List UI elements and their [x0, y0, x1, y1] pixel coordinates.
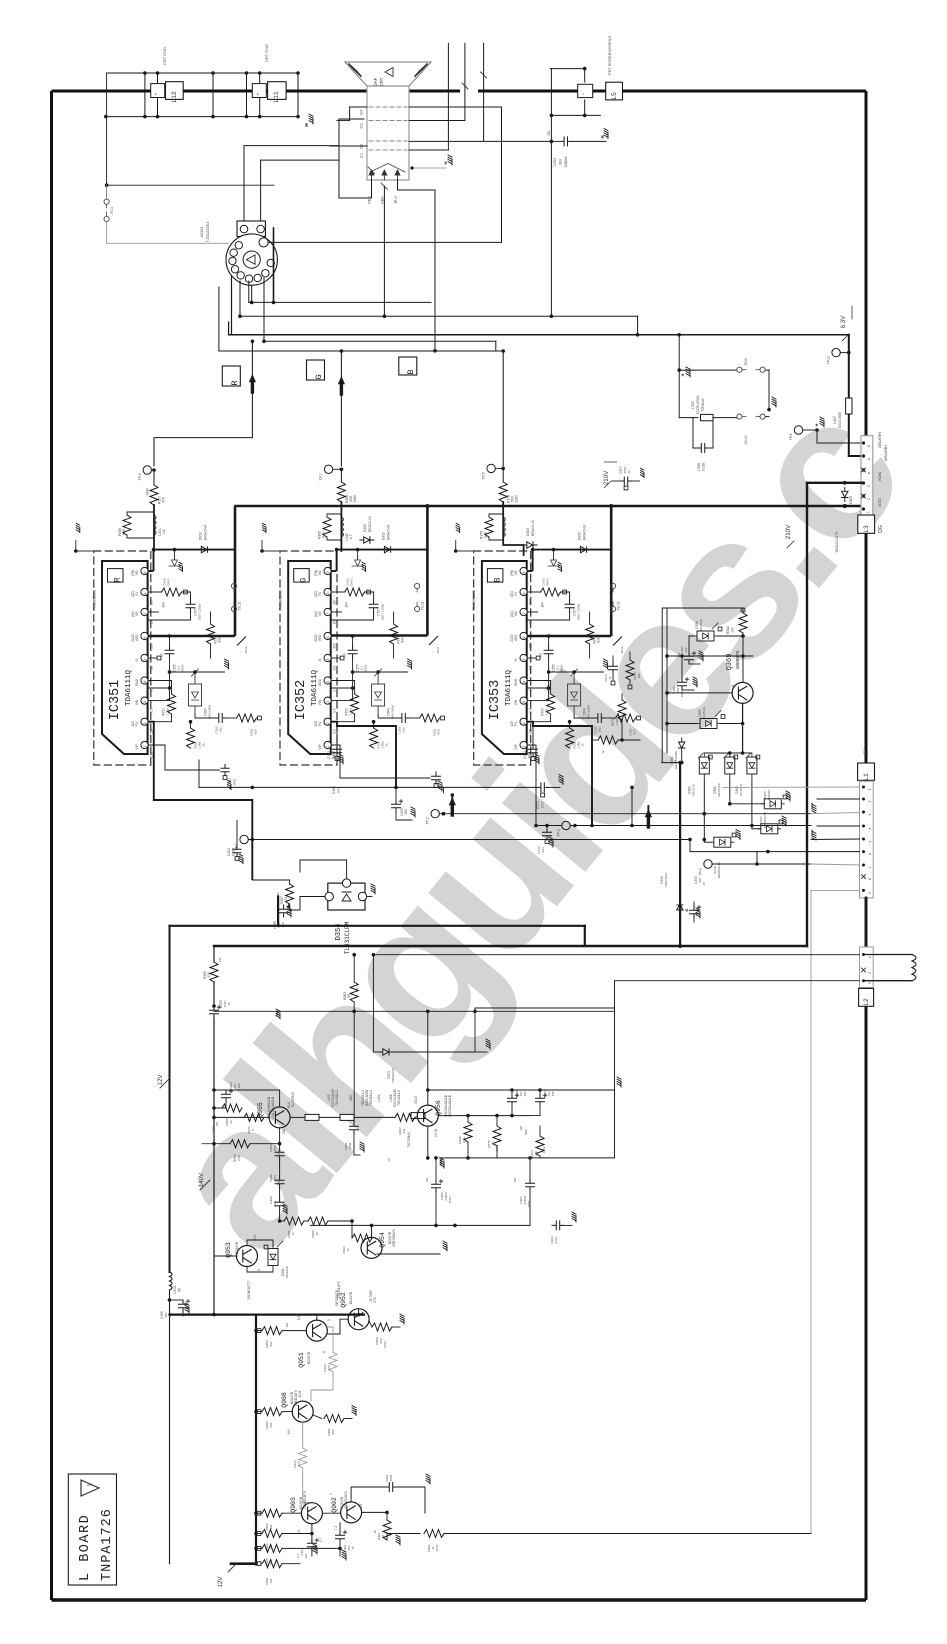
- svg-text:2.8: 2.8: [529, 729, 533, 734]
- outer border frame: [52, 90, 368, 93]
- svg-text:560: 560: [331, 1429, 335, 1434]
- wire L1 pin1 gray: [723, 786, 860, 788]
- svg-text:TDA6111Q: TDA6111Q: [505, 670, 513, 707]
- connector L1: [858, 763, 875, 780]
- pin 5 IC353: [520, 654, 527, 661]
- svg-text:920: 920: [254, 729, 258, 734]
- wire cluster left vertical: [666, 608, 668, 753]
- svg-text:RI: RI: [135, 592, 139, 595]
- wire L1 pin9 gray drop: [811, 890, 860, 1533]
- resistor R901 1k: [387, 1534, 420, 1541]
- connector L1 pin 1: [862, 786, 865, 789]
- svg-text:167: 167: [150, 599, 154, 605]
- capacitor C355 0.1 250V on pin6: [169, 636, 171, 646]
- svg-text:2SB321ATX: 2SB321ATX: [337, 1280, 341, 1298]
- svg-text:0.022: 0.022: [332, 751, 336, 759]
- pin 4 IC351: [141, 677, 148, 684]
- svg-text:VIP: VIP: [135, 744, 139, 749]
- svg-text:250V: 250V: [364, 664, 368, 671]
- connector L1 pin 5: [862, 838, 865, 841]
- svg-text:270: 270: [327, 1365, 331, 1370]
- ferrite bead small box L5: [578, 84, 593, 97]
- capacitor C955 100V 0.01: [275, 1148, 284, 1160]
- svg-text:1: 1: [326, 745, 330, 747]
- svg-text:H: H: [600, 135, 605, 138]
- svg-text:RI: RI: [318, 592, 322, 595]
- left parts near Q955: [212, 1088, 216, 1092]
- svg-text:GD: GD: [547, 130, 551, 136]
- svg-text:470: 470: [162, 497, 166, 503]
- transistor Q952: [348, 1309, 369, 1330]
- svg-text:6: 6: [322, 1351, 326, 1353]
- svg-text:JSL11: JSL11: [238, 601, 242, 610]
- wire row y787: [199, 786, 536, 788]
- resistor R970 0: [244, 1113, 264, 1121]
- wire thick x680 down: [679, 763, 681, 946]
- svg-text:TEK1011-2: TEK1011-2: [369, 1090, 373, 1106]
- svg-text:S20Y 1200p: S20Y 1200p: [198, 603, 202, 620]
- svg-text:140V: 140V: [199, 1173, 205, 1187]
- svg-text:TSK1011-2: TSK1011-2: [397, 1090, 401, 1106]
- capacitor D374 7e: [609, 662, 618, 674]
- svg-text:R382: R382: [726, 626, 730, 634]
- resistor R357 470: [150, 485, 158, 505]
- wire R drop: [251, 341, 253, 437]
- capacitor C352 0.01: [148, 745, 220, 770]
- capacitor C361 0.01 IC352 pin1: [331, 745, 430, 778]
- svg-text:6.6: 6.6: [287, 1430, 291, 1435]
- svg-text:450V: 450V: [448, 1197, 452, 1204]
- svg-text:10: 10: [315, 1232, 319, 1236]
- flare hatch marks: [349, 64, 354, 70]
- svg-text:33k: 33k: [269, 1578, 273, 1583]
- wire 210V riser IC351: [234, 506, 237, 636]
- svg-text:CRT GND: CRT GND: [264, 44, 269, 62]
- svg-text:210V: 210V: [314, 633, 318, 641]
- svg-text:0: 0: [150, 689, 154, 691]
- diode box D353 MA3510L: [697, 719, 720, 729]
- capacitor C391: [550, 140, 554, 144]
- svg-text:MA3510L: MA3510L: [702, 706, 706, 719]
- wire socket left down: [218, 287, 220, 351]
- wire Q369 base: [667, 692, 732, 694]
- wire thick rail y925: [170, 925, 279, 927]
- svg-text:IS: IS: [514, 658, 518, 661]
- svg-text:L954: L954: [377, 1094, 381, 1101]
- svg-text:210V: 210V: [878, 498, 883, 508]
- transistor Q908: [292, 1401, 313, 1422]
- op-amp IC353 TDA6111Q (video output IC): [474, 551, 531, 765]
- jumper JSL11: [611, 583, 616, 588]
- svg-text:3: 3: [326, 701, 330, 703]
- wire Q369 emitter down: [742, 703, 744, 753]
- svg-text:(AC): (AC): [131, 611, 135, 618]
- svg-text:L1: L1: [863, 773, 870, 781]
- svg-text:(FB): (FB): [510, 570, 514, 576]
- CRT grid G3': [369, 106, 407, 108]
- svg-text:2: 2: [868, 972, 872, 974]
- svg-text:10kV: 10kV: [277, 1179, 281, 1186]
- wire GRN cathode: [383, 186, 385, 316]
- svg-text:9: 9: [143, 571, 147, 573]
- svg-text:TUC9EB501: TUC9EB501: [92, 590, 96, 610]
- junction tick: [613, 637, 622, 646]
- svg-text:BC847B: BC847B: [235, 1241, 239, 1254]
- resistor R354 82k: [210, 612, 212, 624]
- svg-text:7: 7: [326, 612, 330, 614]
- resistor R352 1.85k: [373, 722, 375, 728]
- cathode GRN: [382, 170, 387, 180]
- svg-text:50V: 50V: [698, 877, 702, 882]
- socket center triangle: [246, 255, 255, 264]
- wire pin6 row IC351: [148, 635, 235, 638]
- svg-text:1.37k: 1.37k: [349, 708, 353, 716]
- svg-text:G: G: [314, 374, 324, 379]
- wire vertical x373: [372, 955, 374, 1052]
- svg-text:(DC): (DC): [510, 591, 514, 598]
- svg-text:ERA15-04: ERA15-04: [204, 525, 208, 540]
- svg-text:82k: 82k: [218, 637, 222, 643]
- transistor Q903: [301, 1503, 322, 1524]
- wire G1 right: [409, 149, 448, 151]
- wire box right: [475, 1007, 615, 1009]
- svg-text:G3': G3': [360, 109, 364, 115]
- svg-text:1: 1: [143, 745, 147, 747]
- svg-text:120: 120: [534, 1151, 538, 1156]
- svg-text:GD.6: GD.6: [414, 1096, 418, 1104]
- ground stub: [448, 155, 452, 165]
- capacitor C387 220: [688, 646, 690, 652]
- svg-text:R: R: [230, 380, 240, 385]
- svg-text:562: 562: [269, 1341, 273, 1346]
- svg-text:ERA15-04: ERA15-04: [387, 525, 391, 540]
- svg-text:5: 5: [522, 658, 526, 660]
- svg-text:0.01: 0.01: [541, 847, 545, 853]
- wire G3p left stub: [350, 106, 367, 108]
- resistor R975: [493, 1126, 501, 1146]
- resistor R352 1.85k: [190, 722, 192, 728]
- capacitor C355 0.1 250V on pin6: [548, 636, 550, 646]
- resistor R353 1.37k pin4: [331, 680, 354, 682]
- pin 5 IC351: [141, 654, 148, 661]
- svg-text:(DC): (DC): [314, 591, 318, 598]
- label box G: [294, 569, 310, 583]
- svg-text:6: 6: [326, 636, 330, 638]
- svg-text:12V: 12V: [510, 720, 514, 727]
- CRT grid G2: [369, 140, 407, 142]
- svg-text:JR10: JR10: [744, 358, 748, 366]
- wire 210V riser IC353: [610, 506, 613, 636]
- svg-text:22k: 22k: [402, 1128, 406, 1133]
- socket tab pin b: [257, 225, 265, 233]
- svg-text:250V: 250V: [181, 664, 185, 671]
- svg-text:1505: 1505: [389, 1474, 393, 1481]
- svg-text:1k: 1k: [601, 750, 605, 754]
- svg-text:TDA6111Q: TDA6111Q: [125, 670, 133, 707]
- svg-text:0: 0: [529, 689, 533, 691]
- capacitor C357 1200p: [369, 600, 378, 612]
- svg-text:1.37k: 1.37k: [545, 708, 549, 716]
- svg-text:TUC936B91: TUC936B91: [472, 590, 476, 610]
- svg-text:IC351: IC351: [108, 680, 123, 721]
- ground at IC dashed box corner: [76, 540, 94, 551]
- transistor Q951: [306, 1320, 327, 1341]
- transistor Q369 1B08676: [732, 682, 753, 703]
- svg-text:205: 205: [150, 643, 154, 649]
- transistor Q902: [341, 1502, 362, 1523]
- wire row y1018: [214, 1017, 615, 1019]
- connector L1 pin 3: [862, 811, 865, 814]
- pin 3 IC352: [324, 697, 331, 704]
- svg-text:3: 3: [868, 814, 872, 816]
- diode D355 ERA15-04: [523, 542, 537, 548]
- diode to ground small: [553, 550, 555, 560]
- svg-text:7.2: 7.2: [334, 1526, 338, 1531]
- resistor R362 470: [442, 793, 444, 814]
- svg-text:C388: C388: [697, 463, 701, 471]
- pin 9 IC352: [324, 567, 331, 574]
- arrow G up: [338, 376, 345, 394]
- diode to ground small: [357, 550, 359, 560]
- pin 9 IC351: [141, 567, 148, 574]
- connector pin 3 540V: [862, 481, 865, 484]
- socket pin 3: [254, 274, 261, 281]
- svg-text:1: 1: [867, 511, 871, 513]
- wire RED cathode: [339, 180, 372, 198]
- svg-text:FIL: FIL: [318, 721, 322, 726]
- cathode RED: [369, 170, 374, 180]
- ground at IC dashed box corner: [456, 540, 474, 551]
- wire thick D354 K to rail: [278, 897, 585, 926]
- wire Q955 base row: [214, 1116, 269, 1118]
- svg-text:1/2W: 1/2W: [211, 1126, 215, 1133]
- svg-text:Q953: Q953: [225, 1242, 232, 1258]
- svg-text:205: 205: [529, 643, 533, 649]
- svg-text:C372: C372: [523, 751, 527, 759]
- svg-text:10p: 10p: [219, 727, 223, 732]
- svg-text:6.3V: 6.3V: [840, 315, 847, 329]
- svg-text:VIP: VIP: [514, 744, 518, 749]
- svg-text:IC352: IC352: [294, 680, 309, 721]
- wire thick pin9 loop: [532, 550, 534, 571]
- svg-text:VO: VO: [135, 611, 139, 616]
- svg-text:3: 3: [143, 701, 147, 703]
- test point TP7: [324, 465, 332, 473]
- box around D361: [662, 608, 743, 763]
- wire 6.3V drop to heater pin5: [848, 335, 850, 398]
- svg-text:12: 12: [346, 1248, 350, 1252]
- svg-text:Q954: Q954: [379, 1232, 386, 1248]
- svg-text:100: 100: [523, 1091, 527, 1096]
- wire CRT-GND rail top: [107, 72, 299, 74]
- svg-text:3380A: 3380A: [564, 156, 568, 167]
- svg-text:IC353: IC353: [488, 680, 503, 721]
- svg-text:4: 4: [867, 472, 871, 474]
- connector pin 1 210V: [862, 507, 865, 510]
- svg-text:1W: 1W: [218, 958, 222, 963]
- svg-text:1: 1: [868, 789, 872, 791]
- wire row y954: [373, 954, 859, 956]
- capacitor C967: [536, 1094, 547, 1107]
- resistor R96B 2.2k: [464, 1122, 472, 1142]
- wire 210V bus: [234, 505, 866, 508]
- svg-text:2.8: 2.8: [333, 729, 337, 734]
- svg-text:L12: L12: [171, 91, 178, 103]
- wire border bus through connectors: [865, 898, 868, 947]
- wire L1 pin6: [811, 851, 860, 853]
- wire R357 to IC351: [153, 505, 155, 551]
- CRT grid G3: [369, 120, 407, 122]
- wire socket to row1: [248, 281, 250, 302]
- three diode boxes D362 D361 D363: [699, 754, 709, 777]
- inductor L11: [268, 82, 287, 100]
- svg-text:TJS1A5353: TJS1A5353: [205, 221, 210, 243]
- svg-text:4.7: 4.7: [349, 535, 353, 540]
- svg-text:250V: 250V: [560, 664, 564, 671]
- svg-text:+: +: [154, 92, 159, 95]
- svg-text:FIL: FIL: [514, 721, 518, 726]
- svg-text:1/6W: 1/6W: [146, 488, 150, 495]
- socket pin NC: [259, 238, 268, 247]
- svg-text:G3: G3: [360, 123, 364, 128]
- wire Q955 emitter/collector: [279, 1090, 281, 1107]
- svg-text:DG: DG: [878, 525, 884, 533]
- svg-text:330: 330: [207, 972, 211, 978]
- svg-text:MA3130M: MA3130M: [587, 705, 591, 719]
- svg-text:C371: C371: [536, 801, 540, 809]
- test point TP2: [431, 810, 439, 818]
- wire ladder row4: [265, 340, 496, 342]
- wire diode tops: [704, 752, 752, 754]
- wire socket pin down d: [263, 278, 265, 341]
- wire L11 left leg: [246, 73, 248, 117]
- svg-text:8: 8: [868, 878, 872, 880]
- svg-text:82k: 82k: [401, 637, 405, 643]
- svg-text:TP,2: TP,2: [426, 817, 430, 824]
- svg-text:3: 3: [867, 485, 871, 487]
- pin 7 IC351: [141, 608, 148, 615]
- svg-text:IS: IS: [318, 658, 322, 661]
- resistor R368 560: [337, 482, 345, 502]
- wire thick IC353 pin2 drop: [527, 722, 592, 826]
- svg-text:VED: VED: [135, 634, 139, 641]
- svg-text:TEK1011-2: TEK1011-2: [335, 1090, 339, 1106]
- pin 4 IC352: [324, 677, 331, 684]
- connector pin 6 HEATER: [862, 441, 865, 444]
- svg-text:1p: 1p: [627, 470, 631, 474]
- ground near L11: [309, 114, 313, 124]
- connector L1 pin 4: [862, 825, 865, 828]
- svg-text:0.01: 0.01: [528, 752, 532, 759]
- svg-text:2kV: 2kV: [559, 158, 563, 165]
- wire Q951 emitter to Q952: [322, 1338, 338, 1352]
- jumper JSL11: [231, 583, 236, 588]
- inductor L5: [606, 82, 623, 100]
- svg-text:BLU: BLU: [394, 196, 398, 203]
- label box B: [487, 569, 503, 583]
- capacitor C357 1200p: [565, 600, 574, 612]
- svg-text:1W: 1W: [355, 988, 359, 993]
- connector L2 label box: [859, 988, 874, 1006]
- svg-text:TP,10: TP,10: [827, 356, 831, 365]
- jumper JSL54: [737, 414, 742, 419]
- rows R904 R905 R902: [254, 1532, 258, 1536]
- wire ladder row1: [249, 301, 431, 303]
- svg-text:2SD601A777: 2SD601A777: [247, 1280, 251, 1299]
- wire thick 540V: [807, 482, 864, 484]
- capacitor C388 0.018: [693, 418, 697, 448]
- capacitor C966: [508, 1094, 519, 1107]
- capacitor C356 + resistor R351: [527, 700, 548, 702]
- wire L2 pin1 row: [615, 980, 860, 982]
- svg-text:ERA15-04: ERA15-04: [583, 525, 587, 540]
- svg-text:1.5: 1.5: [150, 708, 154, 713]
- resistor R909 gray drop: [327, 1327, 333, 1352]
- resistor R359 loop pin8-pin7: [148, 591, 161, 593]
- svg-text:11: 11: [731, 684, 735, 688]
- diode box D368 MA151K: [694, 631, 717, 641]
- svg-text:D352: D352: [199, 532, 203, 540]
- svg-text:+: +: [255, 92, 260, 95]
- svg-text:5: 5: [143, 658, 147, 660]
- svg-text:6: 6: [143, 636, 147, 638]
- resistor R378 560: [499, 482, 507, 502]
- resistor R959 560: [369, 1319, 375, 1323]
- svg-text:2SB601ATX: 2SB601ATX: [344, 1490, 348, 1509]
- svg-text:56: 56: [178, 1288, 182, 1292]
- svg-text:10: 10: [373, 1530, 377, 1534]
- svg-text:JR11: JR11: [110, 207, 114, 215]
- svg-text:L367: L367: [833, 416, 837, 424]
- pin 8 IC352: [324, 588, 331, 595]
- capacitor C379 0.01: [546, 826, 548, 829]
- svg-text:D365: D365: [849, 496, 853, 504]
- svg-text:470: 470: [284, 897, 288, 903]
- wire row y1011: [214, 1010, 354, 1012]
- capacitor C356 + resistor R351: [331, 700, 352, 702]
- svg-text:MA3130M: MA3130M: [208, 705, 212, 719]
- CRT neck: [367, 86, 409, 180]
- svg-text:BC847B: BC847B: [349, 1291, 353, 1304]
- inductor L904 56: [170, 1272, 173, 1290]
- wire G drop: [340, 351, 342, 466]
- wire G3 to right: [409, 120, 465, 122]
- svg-text:(AC): (AC): [314, 611, 318, 618]
- resistor R354 82k: [393, 612, 395, 624]
- capacitor C380: [277, 897, 279, 906]
- svg-text:10p: 10p: [402, 727, 406, 732]
- svg-text:0.6: 0.6: [529, 666, 533, 671]
- pin 5 IC352: [324, 654, 331, 661]
- svg-text:1: 1: [522, 745, 526, 747]
- wire R378 to IC353: [503, 502, 523, 555]
- wire up right of neck b: [464, 43, 466, 120]
- resistor R960 850: [280, 1147, 290, 1149]
- svg-text:12V: 12V: [131, 720, 135, 727]
- svg-text:BC857B: BC857B: [307, 1351, 311, 1364]
- cathode BLU: [395, 170, 400, 180]
- svg-text:8.2k: 8.2k: [484, 531, 488, 538]
- svg-text:TP,9: TP,9: [789, 434, 793, 441]
- connector L1 pin 9: [862, 889, 865, 892]
- svg-text:RI: RI: [514, 592, 518, 595]
- wire thick pin9 loop: [336, 550, 338, 571]
- svg-text:184: 184: [162, 602, 166, 608]
- svg-text:L904: L904: [173, 1286, 177, 1294]
- svg-text:AE4: AE4: [863, 749, 867, 756]
- wire thick 12V stub: [231, 1562, 256, 1565]
- connector L1 pin 2: [862, 798, 865, 801]
